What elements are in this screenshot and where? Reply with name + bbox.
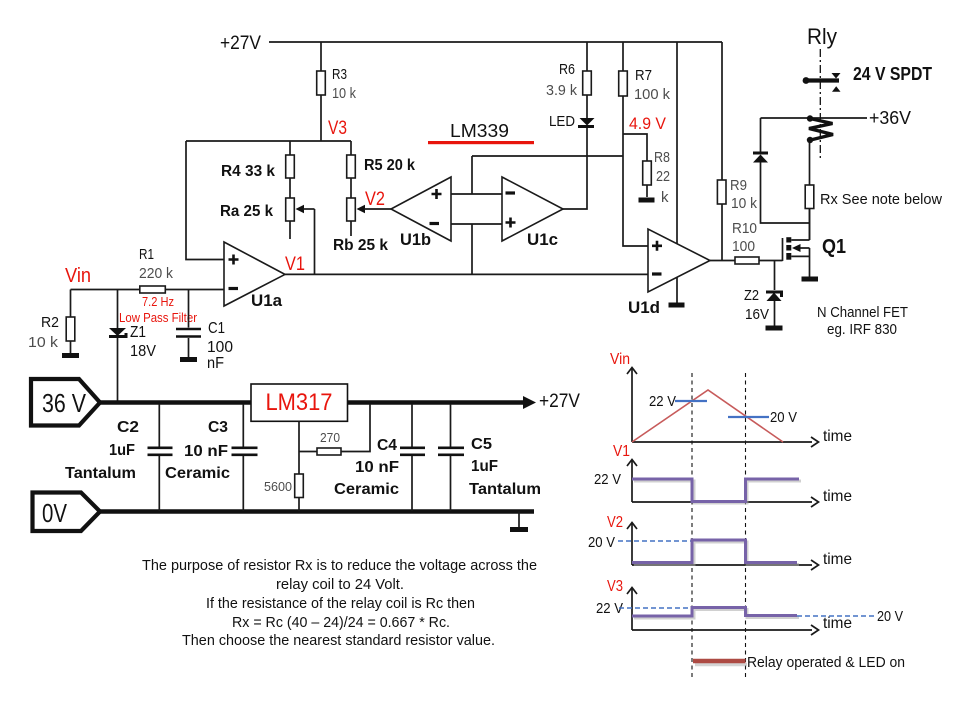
svg-text:eg. IRF 830: eg. IRF 830 xyxy=(827,321,897,338)
capacitor C3 xyxy=(232,448,258,455)
svg-text:time: time xyxy=(823,488,852,505)
svg-text:100: 100 xyxy=(732,238,755,255)
potentiometer Rb xyxy=(347,198,356,221)
svg-text:Tantalum: Tantalum xyxy=(65,465,136,482)
svg-text:V3: V3 xyxy=(607,578,623,595)
transistor Q1 xyxy=(783,209,810,277)
flag 0V xyxy=(33,493,101,532)
wire adj to 270 xyxy=(299,451,317,453)
wire R10 to Q1 gate and Z2 node xyxy=(759,260,783,262)
resistor Rx xyxy=(805,185,814,209)
svg-text:Z2: Z2 xyxy=(744,287,759,304)
svg-text:The purpose of resistor Rx is: The purpose of resistor Rx is to reduce … xyxy=(142,557,537,574)
wire R1 to U1a minus xyxy=(165,289,224,291)
ground R8 xyxy=(639,198,655,203)
wire R8 bottom lead xyxy=(646,185,648,197)
wire U1b minus down to V1 line xyxy=(471,224,473,274)
svg-text:time: time xyxy=(823,615,852,632)
svg-text:10 k: 10 k xyxy=(28,334,59,351)
resistor 5600 xyxy=(295,474,304,498)
svg-text:Rx = Rc (40 – 24)/24 = 0.667 *: Rx = Rc (40 – 24)/24 = 0.667 * Rc. xyxy=(232,614,450,631)
resistor R10 xyxy=(735,257,759,264)
svg-text:22 V: 22 V xyxy=(596,600,623,617)
wire C1 top lead xyxy=(188,290,190,328)
ground 0V rail xyxy=(510,512,528,533)
wire R6 to LED xyxy=(586,95,588,118)
resistor R4 xyxy=(286,155,295,178)
svg-text:Low Pass Filter: Low Pass Filter xyxy=(119,310,198,325)
diode D1 flyback xyxy=(753,153,768,163)
wire Z2 bottom lead xyxy=(774,301,776,326)
regulator LM317 box xyxy=(251,384,348,421)
axis Vin horizontal xyxy=(632,437,819,447)
capacitor C2 xyxy=(148,448,173,455)
svg-text:C3: C3 xyxy=(208,419,228,436)
wire R5 top lead xyxy=(350,141,352,155)
wire coil bottom to Rx top xyxy=(809,140,811,185)
trace V1 xyxy=(632,479,799,502)
wire U1b plus to U1c minus xyxy=(451,193,502,195)
ground Z2 xyxy=(766,326,783,331)
svg-text:10 nF: 10 nF xyxy=(355,459,399,476)
svg-text:R7: R7 xyxy=(635,67,652,84)
wire C5 top lead xyxy=(450,404,452,447)
wire y156 horizontal to R7 node xyxy=(472,155,623,157)
trace V2 shadow xyxy=(634,542,799,565)
capacitor C5 xyxy=(438,448,464,455)
LM339 red underline xyxy=(428,141,534,144)
svg-text:Vin: Vin xyxy=(65,265,91,287)
wire threshold vertical to y156 rail xyxy=(471,156,473,194)
svg-text:22 V: 22 V xyxy=(649,393,676,410)
svg-text:Rly: Rly xyxy=(807,24,837,49)
axis V2 horizontal xyxy=(632,560,819,570)
wire 4.9V tap to R8 xyxy=(623,134,647,161)
svg-text:+27V: +27V xyxy=(539,391,580,412)
svg-text:20 V: 20 V xyxy=(770,409,797,426)
svg-text:Vin: Vin xyxy=(610,351,630,368)
svg-text:U1c: U1c xyxy=(527,230,558,249)
wire supply drop through U1d xyxy=(676,42,678,303)
svg-text:+27V: +27V xyxy=(220,33,261,54)
trace Vin triangle xyxy=(632,390,783,442)
wire 270 to output sense xyxy=(341,404,370,452)
svg-text:R5 20 k: R5 20 k xyxy=(364,157,415,174)
wire C3 bottom lead xyxy=(242,456,244,511)
svg-text:R6: R6 xyxy=(559,61,575,78)
wire +36V feed xyxy=(761,117,868,119)
svg-text:3.9 k: 3.9 k xyxy=(546,82,577,99)
wire R9 bottom to output node xyxy=(721,204,723,261)
wire Rb bottom stub xyxy=(350,221,352,236)
trace V1 shadow xyxy=(634,481,801,503)
svg-text:Ra 25 k: Ra 25 k xyxy=(220,203,273,220)
wiper arrow Rb xyxy=(357,205,392,213)
wire C4 top lead xyxy=(411,404,413,447)
wire C5 bottom lead xyxy=(450,456,452,511)
svg-text:V2: V2 xyxy=(365,189,385,210)
svg-text:Then choose the nearest standa: Then choose the nearest standard resisto… xyxy=(182,632,495,649)
svg-text:10 nF: 10 nF xyxy=(184,443,228,460)
svg-text:Relay operated & LED on: Relay operated & LED on xyxy=(747,654,905,671)
wire R3 bottom lead to node V3 xyxy=(320,95,322,141)
marker 22V level Vin xyxy=(675,400,707,402)
trace V3 shadow xyxy=(634,610,799,619)
zener Z1 xyxy=(109,328,126,337)
svg-text:C1: C1 xyxy=(208,320,225,337)
svg-text:16V: 16V xyxy=(745,306,769,323)
svg-text:1uF: 1uF xyxy=(471,458,498,475)
svg-text:R9: R9 xyxy=(730,177,747,194)
wire Z1 to 36V bus xyxy=(117,338,119,402)
svg-text:18V: 18V xyxy=(130,343,156,360)
relay dash-dot link xyxy=(819,49,821,161)
svg-text:100 k: 100 k xyxy=(634,86,670,103)
svg-text:R2: R2 xyxy=(41,314,59,331)
svg-text:Ceramic: Ceramic xyxy=(334,481,399,498)
marker 20V level Vin xyxy=(728,416,769,418)
axis V1 vertical xyxy=(627,460,637,503)
wire +27V top rail xyxy=(269,41,722,43)
capacitor C4 xyxy=(400,448,425,455)
wire R4 top lead xyxy=(289,141,291,155)
wire Z1 top lead xyxy=(117,290,119,329)
resistor R6 xyxy=(583,71,592,95)
svg-text:4.9 V: 4.9 V xyxy=(629,114,667,133)
wire R7 down to U1d plus xyxy=(623,96,648,246)
svg-text:V2: V2 xyxy=(607,514,623,531)
svg-text:10 k: 10 k xyxy=(731,195,757,212)
axis V3 vertical xyxy=(627,588,637,631)
svg-text:If the resistance of the relay: If the resistance of the relay coil is R… xyxy=(206,595,475,612)
resistor R9 xyxy=(717,180,726,204)
svg-text:22: 22 xyxy=(656,168,670,185)
wire LM317 adj pin xyxy=(298,421,300,451)
svg-text:Z1: Z1 xyxy=(130,324,146,341)
wire C1 bottom lead xyxy=(188,338,190,357)
dashed 20V level V3 right xyxy=(797,615,875,617)
capacitor C1 xyxy=(176,329,201,337)
wire left feedback drop to U1a plus xyxy=(186,141,224,260)
svg-text:C2: C2 xyxy=(117,419,139,436)
svg-text:+36V: +36V xyxy=(869,108,911,128)
wire C4 bottom lead xyxy=(411,456,413,511)
wire C2 top lead xyxy=(158,404,160,447)
wiper arrow Ra xyxy=(296,205,315,213)
wire Vin to R1 xyxy=(71,289,141,291)
svg-text:220 k: 220 k xyxy=(139,265,173,282)
wire Z2 top lead xyxy=(774,261,776,291)
wire R9 top lead from rail xyxy=(721,42,723,180)
resistor 270 xyxy=(317,448,341,455)
ground Q1 source xyxy=(802,277,819,282)
wire Ra bottom stub xyxy=(289,221,291,239)
svg-text:U1d: U1d xyxy=(628,298,660,317)
svg-text:7.2 Hz: 7.2 Hz xyxy=(142,294,174,309)
svg-text:5600: 5600 xyxy=(264,479,292,494)
svg-text:R8: R8 xyxy=(654,149,670,166)
svg-text:270: 270 xyxy=(320,430,340,445)
axis V3 horizontal xyxy=(632,625,819,635)
wire R3 top lead xyxy=(320,42,322,71)
resistor R1 xyxy=(140,286,166,293)
relay operated bar shadow xyxy=(695,663,747,667)
svg-text:C5: C5 xyxy=(471,436,492,453)
svg-text:time: time xyxy=(823,551,852,568)
svg-text:R1: R1 xyxy=(139,246,154,263)
svg-text:Rb 25 k: Rb 25 k xyxy=(333,237,388,254)
wire flyback diode branch xyxy=(761,118,810,223)
wire R2 bottom lead xyxy=(70,341,72,354)
svg-text:k: k xyxy=(661,189,669,206)
diode LED xyxy=(578,118,595,128)
svg-text:0V: 0V xyxy=(42,498,68,528)
resistor R8 xyxy=(643,161,652,185)
svg-text:U1a: U1a xyxy=(251,291,283,310)
trace V3 xyxy=(632,608,797,617)
relay operated bar xyxy=(693,659,746,663)
wire R5 to Rb xyxy=(350,178,352,198)
svg-text:Rx See note below: Rx See note below xyxy=(820,191,942,208)
svg-text:nF: nF xyxy=(207,355,224,372)
wire Vin down to R2 xyxy=(70,290,72,318)
wire R4 to Ra xyxy=(289,178,291,198)
op-amp U1b xyxy=(391,177,451,241)
dashed 20V level V2 xyxy=(618,540,691,542)
resistor R3 xyxy=(317,71,326,95)
svg-text:Ceramic: Ceramic xyxy=(165,465,230,482)
svg-text:LED: LED xyxy=(549,113,575,130)
resistor R7 xyxy=(619,71,628,96)
dashed 22V level V3 xyxy=(619,607,691,609)
bus 36V rail xyxy=(98,400,524,405)
trace V2 xyxy=(632,540,797,563)
svg-text:LM339: LM339 xyxy=(450,121,509,141)
svg-text:Tantalum: Tantalum xyxy=(469,481,541,498)
ground U1d xyxy=(669,303,685,308)
svg-text:10 k: 10 k xyxy=(332,85,356,102)
potentiometer Ra xyxy=(286,198,295,221)
svg-text:R4 33 k: R4 33 k xyxy=(221,163,275,180)
dashed marker line t1 xyxy=(691,373,693,679)
wire U1d output to gate xyxy=(710,260,735,262)
svg-text:36 V: 36 V xyxy=(42,388,87,418)
wire R7 top lead xyxy=(622,42,624,71)
axis V2 vertical xyxy=(627,523,637,566)
op-amp U1c xyxy=(502,177,563,241)
svg-text:24 V SPDT: 24 V SPDT xyxy=(853,64,932,84)
wire V3 horizontal bus xyxy=(186,140,351,142)
svg-text:U1b: U1b xyxy=(400,230,431,249)
wire U1c output to LED chain xyxy=(563,126,587,209)
zener Z2 xyxy=(766,292,782,301)
svg-text:N Channel FET: N Channel FET xyxy=(817,304,908,321)
svg-text:V3: V3 xyxy=(328,118,347,139)
arrow +27V out xyxy=(523,396,536,409)
svg-text:LM317: LM317 xyxy=(266,389,333,416)
wire 5600 to 0V xyxy=(298,498,300,512)
svg-text:20 V: 20 V xyxy=(588,534,615,551)
flag 36 V xyxy=(31,379,100,426)
svg-text:Q1: Q1 xyxy=(822,236,846,258)
svg-text:V1: V1 xyxy=(613,443,630,460)
wire V1 output line to U1d minus xyxy=(285,273,648,275)
svg-text:1uF: 1uF xyxy=(109,442,135,459)
bus 0V rail xyxy=(98,509,534,514)
resistor R2 xyxy=(66,317,75,341)
svg-text:R10: R10 xyxy=(732,220,757,237)
wire U1b minus to U1c plus xyxy=(451,223,502,225)
svg-text:20 V: 20 V xyxy=(877,608,903,625)
wire R6 top lead xyxy=(586,42,588,71)
dashed marker line t2 xyxy=(745,373,747,679)
relay contact SPDT xyxy=(803,73,841,92)
svg-text:time: time xyxy=(823,428,852,445)
relay coil Rly xyxy=(807,115,833,143)
svg-text:22 V: 22 V xyxy=(594,471,621,488)
wire Ra wiper to V1 line xyxy=(314,209,316,274)
op-amp U1d xyxy=(648,229,710,292)
svg-text:relay coil to 24 Volt.: relay coil to 24 Volt. xyxy=(276,576,404,593)
op-amp U1a xyxy=(224,242,285,306)
svg-text:C4: C4 xyxy=(377,437,397,454)
axis Vin vertical xyxy=(627,368,637,443)
wire Rx bottom to Q1 drain xyxy=(809,209,811,241)
svg-text:100: 100 xyxy=(207,339,233,356)
resistor R5 xyxy=(347,155,356,178)
axis V1 horizontal xyxy=(632,497,819,507)
wire C2 bottom lead xyxy=(158,456,160,511)
svg-text:V1: V1 xyxy=(285,254,305,275)
wire C3 top lead xyxy=(242,404,244,447)
ground R2 xyxy=(62,353,79,358)
wire adj to 5600 xyxy=(298,452,300,475)
svg-text:R3: R3 xyxy=(332,66,347,83)
ground C1 xyxy=(180,357,197,362)
